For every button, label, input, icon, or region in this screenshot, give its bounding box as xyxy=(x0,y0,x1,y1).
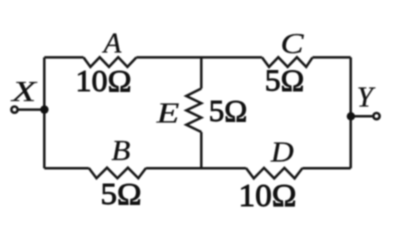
svg-text:Y: Y xyxy=(357,82,376,114)
svg-text:10Ω: 10Ω xyxy=(76,63,132,98)
wire middle vertical bottom xyxy=(200,132,203,168)
terminal X open circle xyxy=(11,107,17,113)
wire terminal Y xyxy=(351,115,372,118)
resistor A xyxy=(84,57,137,67)
wire bottom-left segment xyxy=(44,167,89,170)
svg-text:X: X xyxy=(11,76,38,108)
svg-text:5Ω: 5Ω xyxy=(101,176,142,211)
svg-text:A: A xyxy=(102,28,122,60)
wire left vertical xyxy=(43,57,46,168)
node Y junction dot xyxy=(347,112,355,120)
wire middle vertical top xyxy=(200,57,203,88)
svg-text:B: B xyxy=(111,135,130,167)
svg-text:5Ω: 5Ω xyxy=(209,93,248,128)
svg-text:E: E xyxy=(155,97,179,129)
wire top-middle segment xyxy=(136,56,262,59)
svg-text:10Ω: 10Ω xyxy=(239,177,297,213)
wire right vertical xyxy=(349,57,352,168)
svg-text:D: D xyxy=(270,137,294,169)
wire top-right segment xyxy=(313,56,351,59)
svg-text:C: C xyxy=(281,28,305,60)
terminal Y open circle xyxy=(373,113,379,119)
wire terminal X xyxy=(18,108,44,111)
resistor D xyxy=(246,168,303,179)
resistor E xyxy=(186,89,201,133)
resistor C xyxy=(262,57,313,67)
wire bottom-middle segment xyxy=(146,167,246,170)
wire bottom-right segment xyxy=(303,167,351,170)
resistor B xyxy=(89,168,146,179)
wire top-left segment xyxy=(44,56,83,59)
svg-text:5Ω: 5Ω xyxy=(265,63,305,98)
node X junction dot xyxy=(40,105,48,113)
